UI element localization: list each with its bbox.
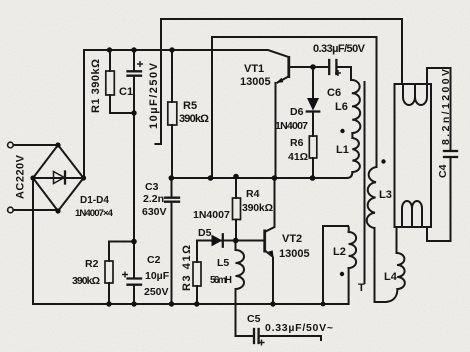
svg-text:L6: L6 xyxy=(335,101,348,113)
svg-text:0.33µF/50V: 0.33µF/50V xyxy=(313,43,366,55)
svg-text:R1 390kΩ: R1 390kΩ xyxy=(90,59,102,113)
svg-text:R6: R6 xyxy=(290,137,304,149)
svg-text:1N4007: 1N4007 xyxy=(193,209,230,221)
svg-text:13005: 13005 xyxy=(240,76,271,88)
svg-text:630V: 630V xyxy=(142,206,167,218)
svg-text:R4: R4 xyxy=(246,188,260,200)
svg-text:T: T xyxy=(358,282,365,294)
svg-text:AC220V: AC220V xyxy=(15,154,27,199)
svg-text:10µF/250V: 10µF/250V xyxy=(148,62,160,129)
svg-text:390kΩ: 390kΩ xyxy=(242,202,273,214)
svg-text:R2: R2 xyxy=(85,258,99,270)
svg-text:0.33µF/50V~: 0.33µF/50V~ xyxy=(265,322,333,334)
svg-text:VT1: VT1 xyxy=(244,63,264,75)
svg-text:C4: C4 xyxy=(437,164,449,178)
svg-text:1N4007×4: 1N4007×4 xyxy=(75,208,114,219)
svg-text:L3: L3 xyxy=(379,189,392,201)
svg-text:C3: C3 xyxy=(145,181,159,193)
svg-text:D1-D4: D1-D4 xyxy=(80,195,109,206)
svg-text:R5: R5 xyxy=(183,100,197,112)
svg-text:L4: L4 xyxy=(384,271,398,283)
svg-text:1N4007: 1N4007 xyxy=(275,120,308,132)
svg-text:250V: 250V xyxy=(144,286,169,298)
svg-text:C6: C6 xyxy=(327,87,341,99)
svg-text:C1: C1 xyxy=(119,86,133,98)
svg-text:R3 41Ω: R3 41Ω xyxy=(181,245,193,291)
svg-text:L2: L2 xyxy=(333,246,346,258)
svg-text:2.2n: 2.2n xyxy=(143,193,164,205)
svg-text:41Ω: 41Ω xyxy=(288,151,308,163)
svg-text:D5: D5 xyxy=(198,227,212,239)
svg-text:VT2: VT2 xyxy=(282,233,302,245)
svg-text:D6: D6 xyxy=(290,106,304,118)
svg-text:C2: C2 xyxy=(147,254,161,266)
svg-text:390kΩ: 390kΩ xyxy=(179,113,209,125)
svg-text:10µF: 10µF xyxy=(145,270,170,282)
svg-text:L5: L5 xyxy=(217,257,229,269)
svg-text:56mH: 56mH xyxy=(210,275,232,286)
svg-text:13005: 13005 xyxy=(279,248,310,260)
svg-text:C5: C5 xyxy=(247,313,261,325)
svg-text:390kΩ: 390kΩ xyxy=(72,275,100,287)
svg-text:L1: L1 xyxy=(336,144,349,156)
